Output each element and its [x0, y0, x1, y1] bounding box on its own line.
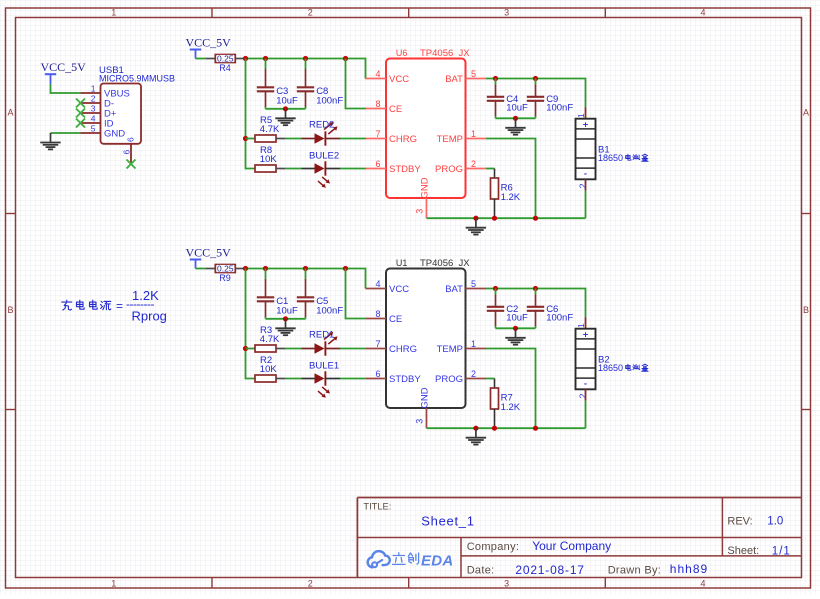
svg-text:TEMP: TEMP — [437, 344, 463, 355]
node: R branch junction — [243, 346, 248, 351]
wire TEMP to gnd rail — [486, 349, 536, 429]
title text Date / Drawn By — [467, 562, 708, 577]
wire VCC flag to resistor — [196, 58, 207, 60]
LED RED2 — [302, 119, 341, 145]
svg-text:8: 8 — [375, 99, 380, 109]
svg-text:4: 4 — [91, 114, 96, 124]
svg-text:2: 2 — [91, 94, 96, 104]
wire VCC bus — [246, 59, 366, 79]
op-amp / charger IC U1 TP4056_JX — [366, 258, 486, 428]
svg-text:CHRG: CHRG — [389, 344, 417, 355]
svg-text:1: 1 — [111, 7, 116, 17]
ground (output caps) — [505, 328, 525, 344]
svg-text:RED2: RED2 — [309, 119, 334, 130]
svg-text:2: 2 — [308, 578, 313, 588]
resistor R3 4.7K — [255, 325, 285, 352]
wire VCC flag to resistor — [196, 268, 207, 270]
wire VCC bus — [246, 269, 366, 289]
svg-text:4: 4 — [375, 69, 380, 79]
svg-text:TEMP: TEMP — [437, 134, 463, 145]
logo LCEDA cloud — [368, 551, 390, 567]
power flag VCC_5V (top) — [186, 36, 232, 59]
capacitor C4 10uF — [487, 79, 528, 119]
svg-text:2021-08-17: 2021-08-17 — [515, 563, 584, 577]
svg-text:4.7K: 4.7K — [260, 334, 280, 345]
svg-text:3: 3 — [504, 578, 509, 588]
svg-text:1: 1 — [471, 129, 476, 139]
svg-text:4.7K: 4.7K — [260, 124, 280, 135]
svg-text:6: 6 — [122, 150, 132, 155]
svg-text:100nF: 100nF — [546, 312, 573, 323]
svg-text:Sheet_1: Sheet_1 — [421, 514, 474, 529]
svg-text:2: 2 — [471, 369, 476, 379]
wire USB pin 5 to ground — [51, 132, 81, 134]
svg-text:1: 1 — [471, 339, 476, 349]
power flag VCC_5V (bottom) — [186, 246, 232, 269]
svg-text:+: + — [583, 119, 589, 130]
svg-text:2: 2 — [578, 183, 588, 188]
LED RED1 — [302, 329, 341, 355]
node: output cap gnd junction — [513, 326, 518, 331]
op-amp / charger IC U6 TP4056_JX — [366, 48, 486, 218]
wire to upper LED resistor — [246, 348, 256, 350]
svg-text:10uF: 10uF — [276, 305, 298, 316]
svg-text:-: - — [584, 168, 587, 179]
ground (rail) — [466, 428, 486, 444]
node: BAT junctions — [493, 76, 538, 81]
svg-text:3: 3 — [91, 104, 96, 114]
title block — [357, 498, 801, 578]
svg-text:18650: 18650 — [598, 153, 623, 163]
svg-text:2: 2 — [308, 7, 313, 17]
svg-text:hhh89: hhh89 — [670, 562, 708, 576]
ground (rail) — [466, 218, 486, 234]
wire CE branch — [346, 59, 367, 109]
svg-text:3: 3 — [504, 7, 509, 17]
wire BAT to battery — [486, 289, 586, 318]
svg-text:-: - — [584, 378, 587, 389]
capacitor C2 10uF — [487, 289, 528, 329]
svg-text:1: 1 — [111, 578, 116, 588]
wire LED to chip pin — [340, 378, 366, 380]
svg-text:1: 1 — [576, 113, 586, 118]
ground (input caps) — [275, 319, 295, 335]
svg-text:TP4056_JX: TP4056_JX — [420, 48, 470, 59]
ground (USB GND) — [40, 133, 60, 149]
no-connect X marks (USB pins 2,3,4) — [76, 99, 85, 128]
svg-text:3: 3 — [414, 209, 424, 214]
wire battery minus to gnd rail — [585, 401, 587, 429]
svg-text:VCC_5V: VCC_5V — [186, 36, 232, 50]
svg-text:100nF: 100nF — [316, 305, 343, 316]
wire TEMP to gnd rail — [486, 139, 536, 219]
svg-text:100nF: 100nF — [546, 102, 573, 113]
resistor R7 1.2K — [486, 379, 521, 429]
capacitor C8 100nF — [297, 59, 344, 109]
wire output cap ground bar — [496, 117, 536, 119]
wire ground rail — [427, 217, 586, 219]
title text REV — [727, 516, 783, 528]
wire ground rail — [427, 427, 586, 429]
svg-text:STDBY: STDBY — [389, 374, 421, 385]
battery B1 18650 — [576, 107, 649, 191]
node: rail junctions — [473, 216, 538, 221]
svg-text:R4: R4 — [219, 63, 231, 73]
svg-text:GND: GND — [104, 128, 125, 139]
wire LED to chip pin — [340, 168, 366, 170]
capacitor C3 10uF — [257, 59, 298, 109]
logo text 立创EDA — [393, 553, 454, 570]
svg-text:4: 4 — [700, 578, 705, 588]
svg-text:STDBY: STDBY — [389, 164, 421, 175]
no-connect X mark (USB pin 6) — [127, 160, 136, 169]
node: BAT junctions — [493, 286, 538, 291]
wire LED to chip pin — [340, 138, 366, 140]
svg-text:10uF: 10uF — [506, 312, 528, 323]
wire resistor to LED — [285, 378, 302, 380]
capacitor C9 100nF — [527, 79, 574, 119]
svg-text:CE: CE — [389, 314, 402, 325]
svg-text:6: 6 — [375, 369, 380, 379]
resistor R8 10K — [255, 145, 285, 172]
wire VCC bus to chip VCC pin — [365, 78, 368, 80]
svg-text:0.25: 0.25 — [217, 54, 234, 64]
svg-text:8: 8 — [375, 309, 380, 319]
svg-text:VCC: VCC — [389, 74, 409, 85]
wire to upper LED resistor — [246, 138, 256, 140]
LED BULE1 — [302, 361, 341, 398]
svg-text:GND: GND — [420, 387, 431, 408]
svg-text:1.2K: 1.2K — [501, 192, 521, 203]
svg-text:B: B — [803, 305, 809, 315]
wire resistor to LED — [285, 348, 302, 350]
svg-text:6: 6 — [375, 159, 380, 169]
svg-text:EDA: EDA — [421, 553, 454, 570]
svg-text:4: 4 — [700, 7, 705, 17]
wire output cap ground bar — [496, 327, 536, 329]
wire CE branch — [346, 269, 367, 319]
svg-text:7: 7 — [375, 339, 380, 349]
svg-text:5: 5 — [471, 69, 476, 79]
svg-text:A: A — [7, 107, 13, 117]
svg-text:10uF: 10uF — [276, 95, 298, 106]
svg-text:1: 1 — [576, 323, 586, 328]
svg-text:BULE2: BULE2 — [309, 151, 339, 162]
svg-text:REV:: REV: — [727, 516, 752, 528]
node: cap gnd junction — [283, 316, 288, 321]
svg-text:4: 4 — [375, 279, 380, 289]
node: output cap gnd junction — [513, 116, 518, 121]
wire R branch vertical — [246, 59, 256, 169]
svg-text:A: A — [803, 107, 809, 117]
svg-text:U1: U1 — [396, 258, 408, 268]
node: R branch junction — [243, 136, 248, 141]
capacitor C5 100nF — [297, 269, 344, 319]
wire BAT to battery — [486, 79, 586, 108]
svg-text:10uF: 10uF — [506, 102, 528, 113]
svg-text:U6: U6 — [396, 48, 408, 58]
svg-text:7: 7 — [375, 129, 380, 139]
resistor R5 4.7K — [255, 115, 285, 142]
svg-text:+: + — [583, 329, 589, 340]
wire input cap ground bar — [266, 108, 306, 110]
svg-text:Your Company: Your Company — [532, 539, 611, 553]
wire R branch vertical — [246, 269, 256, 379]
ground (input caps) — [275, 109, 295, 125]
svg-text:R9: R9 — [219, 273, 231, 283]
svg-text:1: 1 — [91, 84, 96, 94]
svg-text:BULE1: BULE1 — [309, 361, 339, 372]
node: bus junctions — [243, 266, 348, 271]
resistor R6 1.2K — [486, 169, 521, 219]
svg-text:RED1: RED1 — [309, 329, 334, 340]
svg-text:Company:: Company: — [467, 541, 520, 553]
svg-text:3: 3 — [414, 419, 424, 424]
wire battery minus to gnd rail — [585, 191, 587, 219]
wire VCC bus to chip VCC pin — [365, 288, 368, 290]
svg-text:5: 5 — [471, 279, 476, 289]
svg-text:1.2K: 1.2K — [501, 402, 521, 413]
LED BULE2 — [302, 151, 341, 188]
svg-text:10K: 10K — [260, 154, 278, 165]
svg-text:VCC_5V: VCC_5V — [41, 60, 87, 74]
resistor R9 0.25 — [206, 264, 244, 284]
svg-text:PROG: PROG — [435, 374, 463, 385]
svg-text:1/1: 1/1 — [772, 545, 791, 557]
svg-text:BAT: BAT — [445, 284, 463, 295]
svg-text:VCC_5V: VCC_5V — [186, 246, 232, 260]
svg-text:2: 2 — [471, 159, 476, 169]
svg-text:BAT: BAT — [445, 74, 463, 85]
svg-text:PROG: PROG — [435, 164, 463, 175]
connector USB1 MICRO5.9MMUSB — [81, 65, 176, 164]
resistor R4 0.25 — [206, 54, 244, 74]
wire LED to chip pin — [340, 348, 366, 350]
ground (output caps) — [505, 118, 525, 134]
capacitor C1 10uF — [257, 269, 298, 319]
svg-text:Rprog: Rprog — [132, 309, 167, 324]
svg-text:18650: 18650 — [598, 363, 623, 373]
svg-text:MICRO5.9MMUSB: MICRO5.9MMUSB — [99, 74, 175, 84]
wire resistor to LED — [285, 138, 302, 140]
svg-text:0.25: 0.25 — [217, 264, 234, 274]
resistor R2 10K — [255, 355, 285, 382]
svg-text:CE: CE — [389, 104, 402, 115]
svg-text:6: 6 — [126, 137, 136, 142]
svg-text:GND: GND — [420, 177, 431, 198]
svg-text:Sheet:: Sheet: — [727, 545, 759, 557]
svg-text:=: = — [116, 299, 123, 313]
svg-text:5: 5 — [91, 124, 96, 134]
wire input cap ground bar — [266, 318, 306, 320]
svg-text:Date:: Date: — [467, 564, 495, 576]
svg-text:CHRG: CHRG — [389, 134, 417, 145]
svg-text:10K: 10K — [260, 364, 278, 375]
title text TITLE — [363, 502, 474, 529]
wire VCC to USB pin 1 — [51, 84, 81, 93]
note: charge current formula — [62, 288, 167, 324]
svg-text:VCC: VCC — [389, 284, 409, 295]
title text Company — [467, 539, 611, 553]
svg-text:100nF: 100nF — [316, 95, 343, 106]
power flag VCC_5V (USB) — [41, 60, 87, 84]
svg-text:Drawn By:: Drawn By: — [608, 564, 661, 576]
battery B2 18650 — [576, 317, 649, 401]
node: bus junctions — [243, 56, 348, 61]
svg-text:2: 2 — [578, 393, 588, 398]
svg-text:B: B — [7, 305, 13, 315]
svg-text:TP4056_JX: TP4056_JX — [420, 258, 470, 269]
svg-text:1.0: 1.0 — [767, 516, 783, 528]
node: rail junctions — [473, 426, 538, 431]
capacitor C6 100nF — [527, 289, 574, 329]
title text Sheet — [727, 545, 790, 558]
wire resistor to LED — [285, 168, 302, 170]
node: cap gnd junction — [283, 106, 288, 111]
svg-text:TITLE:: TITLE: — [363, 502, 391, 512]
